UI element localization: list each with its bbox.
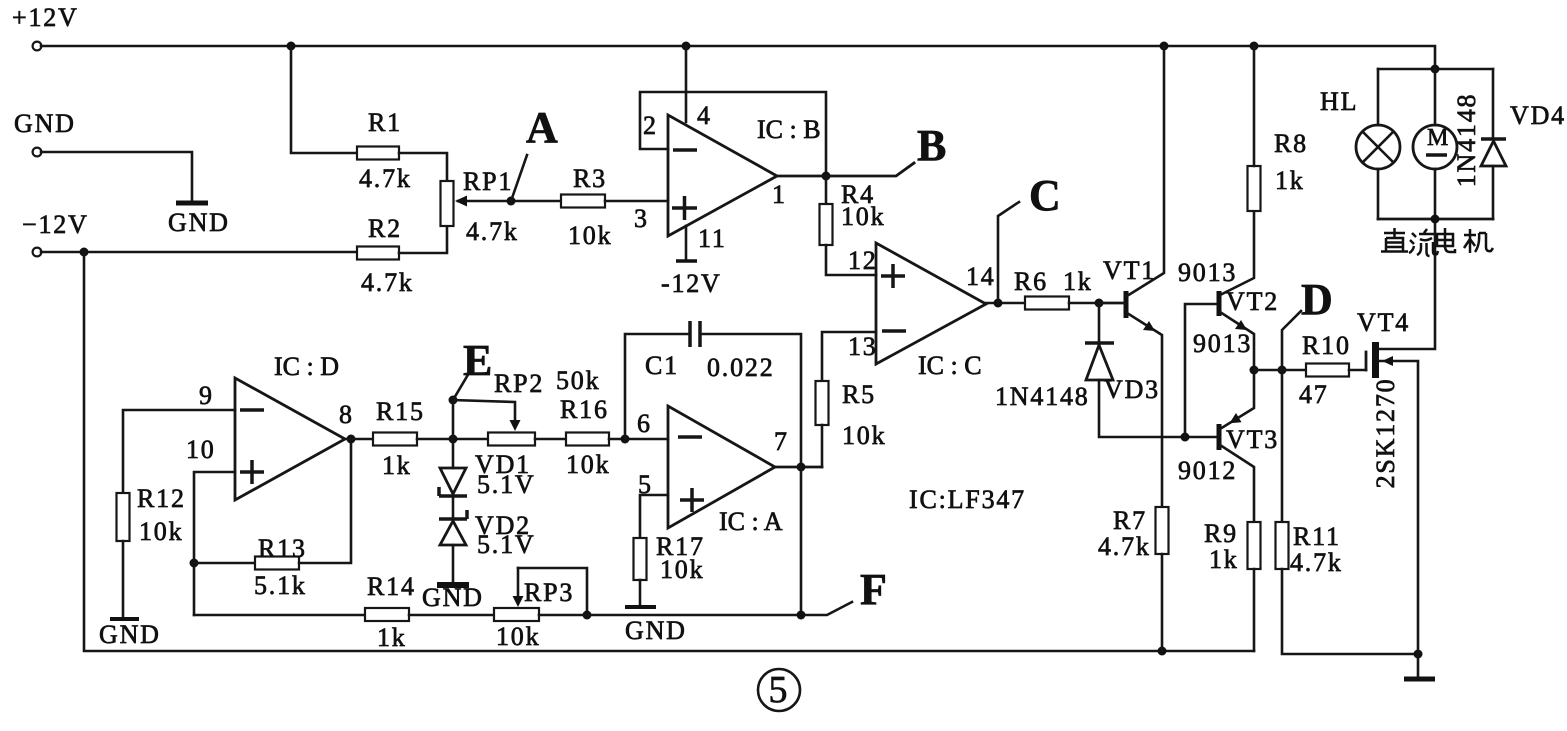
svg-text:9013: 9013 xyxy=(1193,329,1252,358)
svg-text:10k: 10k xyxy=(660,555,704,584)
svg-text:4: 4 xyxy=(697,101,712,130)
svg-text:RP3: RP3 xyxy=(524,578,574,607)
svg-text:1k: 1k xyxy=(1209,545,1239,574)
svg-text:+12V: +12V xyxy=(12,3,79,32)
svg-text:R1: R1 xyxy=(368,108,402,137)
svg-text:GND: GND xyxy=(168,208,230,237)
svg-text:2SK1270: 2SK1270 xyxy=(1371,378,1400,489)
svg-text:1k: 1k xyxy=(1063,267,1093,296)
svg-text:R14: R14 xyxy=(367,572,416,601)
svg-text:7: 7 xyxy=(774,427,789,456)
svg-text:E: E xyxy=(463,336,492,385)
svg-text:VT4: VT4 xyxy=(1357,308,1410,337)
svg-text:RP1: RP1 xyxy=(463,167,513,196)
svg-text:9012: 9012 xyxy=(1178,456,1237,485)
svg-text:IC : C: IC : C xyxy=(918,351,982,380)
svg-text:R16: R16 xyxy=(560,395,609,424)
svg-text:B: B xyxy=(917,121,946,170)
svg-text:14: 14 xyxy=(966,262,996,291)
svg-text:VT1: VT1 xyxy=(1103,256,1156,285)
svg-text:VD3: VD3 xyxy=(1104,375,1160,404)
svg-text:R9: R9 xyxy=(1204,519,1238,548)
svg-text:R13: R13 xyxy=(258,534,307,563)
svg-text:IC : B: IC : B xyxy=(757,115,821,144)
svg-text:10k: 10k xyxy=(566,450,610,479)
svg-text:VT2: VT2 xyxy=(1226,287,1279,316)
svg-text:R8: R8 xyxy=(1274,129,1308,158)
svg-text:1k: 1k xyxy=(382,451,412,480)
svg-text:10k: 10k xyxy=(496,622,540,651)
svg-text:10k: 10k xyxy=(568,221,612,250)
svg-text:R10: R10 xyxy=(1302,331,1351,360)
svg-text:VT3: VT3 xyxy=(1226,425,1279,454)
svg-text:8: 8 xyxy=(339,400,354,429)
svg-text:R12: R12 xyxy=(137,484,186,513)
svg-text:5: 5 xyxy=(769,669,788,711)
svg-text:10k: 10k xyxy=(841,202,885,231)
svg-text:A: A xyxy=(526,103,558,152)
svg-text:D: D xyxy=(1301,275,1333,324)
svg-text:R15: R15 xyxy=(376,397,425,426)
svg-text:C: C xyxy=(1029,171,1061,220)
svg-text:47: 47 xyxy=(1299,380,1329,409)
svg-text:HL: HL xyxy=(1320,87,1358,116)
svg-text:9013: 9013 xyxy=(1178,258,1237,287)
svg-text:1N4148: 1N4148 xyxy=(1452,93,1481,188)
svg-text:50k: 50k xyxy=(556,366,600,395)
svg-text:9: 9 xyxy=(199,381,214,410)
svg-text:GND: GND xyxy=(14,109,76,138)
svg-text:4.7k: 4.7k xyxy=(361,268,414,297)
svg-text:IC : A: IC : A xyxy=(719,507,783,536)
svg-text:4.7k: 4.7k xyxy=(1098,532,1151,561)
svg-text:2: 2 xyxy=(643,111,658,140)
svg-text:IC : D: IC : D xyxy=(274,352,339,381)
svg-text:R11: R11 xyxy=(1293,522,1341,551)
svg-text:1: 1 xyxy=(772,180,787,209)
svg-text:10: 10 xyxy=(186,435,216,464)
svg-text:0.022: 0.022 xyxy=(707,353,775,382)
svg-text:R7: R7 xyxy=(1113,506,1147,535)
svg-text:10k: 10k xyxy=(842,421,886,450)
svg-text:GND: GND xyxy=(422,583,484,612)
svg-text:IC:LF347: IC:LF347 xyxy=(909,485,1026,514)
svg-text:10k: 10k xyxy=(139,517,183,546)
svg-text:5: 5 xyxy=(638,470,653,499)
svg-text:-12V: -12V xyxy=(661,269,722,298)
svg-text:5.1V: 5.1V xyxy=(477,530,535,559)
svg-text:4.7k: 4.7k xyxy=(466,217,519,246)
svg-text:1N4148: 1N4148 xyxy=(995,382,1090,411)
svg-text:RP2: RP2 xyxy=(494,369,544,398)
svg-text:5.1V: 5.1V xyxy=(477,470,535,499)
svg-text:1k: 1k xyxy=(1275,166,1305,195)
svg-text:12: 12 xyxy=(848,246,878,275)
svg-text:R6: R6 xyxy=(1014,267,1048,296)
svg-text:C1: C1 xyxy=(645,351,679,380)
svg-text:R5: R5 xyxy=(842,380,876,409)
svg-text:−12V: −12V xyxy=(22,210,89,239)
svg-text:R2: R2 xyxy=(368,214,402,243)
svg-text:6: 6 xyxy=(637,409,652,438)
svg-text:4.7k: 4.7k xyxy=(1290,548,1343,577)
svg-text:M: M xyxy=(1427,125,1448,151)
svg-text:4.7k: 4.7k xyxy=(359,164,412,193)
svg-text:R3: R3 xyxy=(573,164,607,193)
svg-text:VD4: VD4 xyxy=(1510,101,1566,130)
svg-text:5.1k: 5.1k xyxy=(254,571,307,600)
svg-text:GND: GND xyxy=(99,620,161,649)
svg-text:11: 11 xyxy=(698,224,727,253)
svg-text:F: F xyxy=(860,565,887,614)
svg-text:3: 3 xyxy=(634,204,649,233)
svg-text:1k: 1k xyxy=(377,623,407,652)
svg-text:13: 13 xyxy=(848,332,878,361)
svg-text:GND: GND xyxy=(625,616,687,645)
